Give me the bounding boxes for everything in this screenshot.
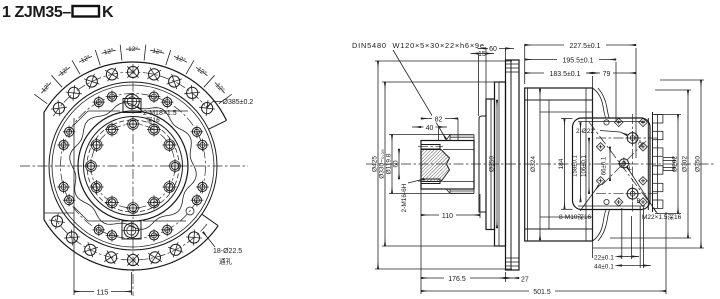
svg-text:12°: 12° [174, 53, 187, 64]
spigot circle D335 [49, 82, 217, 250]
seal carrier disc [479, 116, 486, 212]
dim 79 text [600, 69, 613, 79]
svg-text:2-Ø22: 2-Ø22 [576, 128, 594, 135]
svg-text:110: 110 [442, 213, 453, 220]
dim D202 ext [655, 115, 681, 214]
svg-text:195.5±0.1: 195.5±0.1 [562, 58, 593, 65]
dim 60 top ext [486, 48, 506, 99]
svg-text:12°: 12° [79, 53, 92, 64]
port B [626, 187, 641, 205]
M18 hole top [124, 93, 141, 110]
dim 195.5 line [525, 59, 616, 61]
dim 22 line [617, 256, 639, 258]
dim 110 line [421, 214, 480, 216]
svg-text:183.5±0.1: 183.5±0.1 [549, 71, 580, 78]
dim 176.5 line [421, 277, 506, 279]
thread dashed circle [87, 120, 179, 212]
dim 501.5 text [529, 287, 555, 297]
svg-text:40: 40 [426, 125, 434, 132]
dim 40 line [412, 126, 447, 128]
8x M10 holes diamonds [596, 118, 647, 206]
rear neck curves [593, 88, 611, 241]
dim 79 line [593, 72, 637, 74]
right view centerline [366, 163, 714, 165]
svg-text:12°: 12° [58, 65, 71, 77]
svg-text:Ø385±0.2: Ø385±0.2 [223, 99, 254, 106]
flange step line upper right [209, 120, 227, 129]
dim 176.5 text [444, 274, 470, 284]
dim 176.5 ext [421, 189, 506, 294]
label M22 leader [627, 167, 656, 212]
dim 227.5 line [525, 44, 636, 46]
label 2-M16 leader [408, 179, 424, 183]
dim 501.5 ext [665, 212, 667, 294]
svg-text:115: 115 [97, 288, 109, 297]
dim 27 line [506, 277, 520, 279]
label 18-D22.5 text [213, 248, 242, 266]
dim D324 line [539, 89, 541, 240]
dim 158 line [580, 122, 582, 202]
rear port face outline [573, 118, 651, 210]
hub disc D260 [486, 99, 495, 230]
svg-text:60: 60 [489, 46, 497, 53]
spigot circle D330 [52, 85, 214, 247]
svg-text:18-Ø22.5: 18-Ø22.5 [213, 248, 242, 255]
svg-text:深16: 深16 [146, 115, 160, 124]
svg-text:2-M16-6H: 2-M16-6H [401, 183, 408, 212]
label DIN5480 leader [393, 50, 446, 139]
dim D302 ext [610, 90, 691, 238]
dim 60 top text [488, 44, 499, 53]
label 2-M18 text [143, 110, 177, 124]
dim 40 text [424, 123, 436, 132]
M18 hole bottom [123, 222, 141, 240]
dim D350 line [700, 80, 702, 248]
inner housing chamfer bottom [74, 207, 88, 221]
port face vertical centerline [632, 114, 634, 213]
dim 66 line [609, 147, 611, 181]
dim D302 line [687, 90, 689, 238]
small hole top row [604, 120, 609, 205]
dim 22 ext [622, 206, 640, 268]
dim 110 ext [479, 194, 481, 218]
dim D119.8 line [391, 135, 393, 194]
dim 184 line [564, 119, 566, 210]
svg-text:44±0.1: 44±0.1 [594, 264, 614, 271]
port A [626, 131, 642, 147]
dim 82 ext [457, 119, 459, 141]
flat connector line [44, 212, 74, 214]
dim 15 ext [478, 54, 480, 116]
svg-text:79: 79 [603, 71, 611, 78]
inner housing left edge [73, 118, 75, 226]
svg-text:227.5±0.1: 227.5±0.1 [569, 43, 600, 50]
dim 115 extension lines [74, 226, 132, 295]
dim D119.8 ext lines [389, 135, 452, 194]
flange step line lower right [202, 214, 218, 226]
outer flange arc top D425 [44, 62, 227, 120]
dim 115 text [94, 287, 111, 297]
label 2-D22 leader [600, 131, 627, 136]
dim 15 line [471, 53, 495, 55]
label 18-D22.5 leader [203, 232, 215, 247]
svg-text:1 ZJM35–: 1 ZJM35– [2, 4, 71, 21]
dim 110 text [439, 211, 456, 221]
inner housing top edge [88, 110, 188, 112]
2-M16 tapped hole top [418, 145, 443, 150]
spigot D330 [495, 82, 506, 246]
dim 195.5 ext [615, 62, 617, 122]
cam ring lobed profile [70, 103, 196, 229]
left flat edge [43, 112, 45, 220]
svg-text:8-M10深16: 8-M10深16 [559, 212, 592, 221]
dim 60 spline line [398, 149, 400, 179]
svg-text:L: L [629, 166, 633, 172]
svg-text:27: 27 [521, 277, 529, 284]
svg-text:12°: 12° [128, 45, 138, 53]
svg-text:106±0.1: 106±0.1 [582, 155, 588, 177]
mid bolt circle centerline [61, 94, 206, 239]
dim 44 ext [642, 206, 644, 268]
dim 40 ext [438, 128, 440, 141]
dim 501.5 line [421, 290, 666, 292]
svg-text:15: 15 [478, 51, 486, 58]
bolt circle centerline top [53, 72, 205, 116]
valve teeth column [648, 112, 676, 212]
dim 183.5 line [525, 72, 593, 74]
M18 port pocket bottom [122, 221, 141, 239]
left view vertical centerline [132, 64, 134, 296]
label 2-M18 leader [137, 107, 143, 112]
output shaft spline block [421, 135, 474, 194]
dim 115 line [74, 291, 132, 293]
12deg labels [40, 45, 227, 94]
bore circle D98 [84, 117, 183, 216]
svg-text:K: K [102, 4, 114, 21]
dim 184 ext [561, 119, 573, 210]
svg-text:66±0.1: 66±0.1 [602, 156, 608, 175]
svg-text:12°: 12° [195, 65, 208, 77]
svg-text:12°: 12° [152, 47, 164, 57]
dim D425 line [377, 61, 379, 269]
dim 183.5 text [544, 69, 586, 79]
inner housing chamfer top [74, 111, 88, 125]
dim 82 text [432, 115, 445, 124]
18x D22.5 bolt holes [49, 66, 215, 265]
rear port face inner bottom line [578, 205, 645, 207]
svg-text:22±0.1: 22±0.1 [594, 255, 614, 262]
mid ring roller holes [57, 90, 208, 241]
dim 60 top line [478, 47, 515, 49]
dim 195.5 text [557, 55, 599, 65]
dim D425 ext lines [375, 61, 512, 269]
port A centerline [596, 137, 658, 139]
diagonal centerline 2 [602, 141, 646, 185]
M18 port pocket top [123, 99, 141, 113]
diagonal centerline 1 [589, 122, 658, 214]
dim D350 ext [593, 80, 705, 248]
title box [73, 6, 100, 17]
dim 106 line [588, 138, 590, 194]
dim 15 text [477, 49, 487, 58]
dim D330 ext lines [382, 82, 500, 246]
svg-text:通孔: 通孔 [219, 257, 233, 266]
dim 44 line [617, 265, 651, 267]
dim 82 line [421, 118, 458, 120]
dim 227.5 ext [525, 44, 636, 158]
port L center [618, 157, 633, 172]
svg-text:501.5: 501.5 [533, 289, 551, 296]
svg-text:82: 82 [435, 117, 443, 124]
dim 227.5 text [564, 41, 606, 51]
dim D250 line [496, 100, 498, 228]
svg-text:12°: 12° [103, 47, 115, 57]
main housing D324 [525, 88, 593, 241]
left view horizontal centerline [20, 165, 248, 167]
svg-text:176.5: 176.5 [448, 276, 466, 283]
inner bolt circle centerline [91, 124, 175, 208]
label 8-M10 leader [580, 185, 599, 211]
svg-text:158±0.1: 158±0.1 [573, 155, 579, 177]
bore circle D110 [78, 111, 188, 221]
label D385 leader [207, 102, 223, 108]
rear port face inner top line [578, 121, 645, 123]
pin hole [186, 207, 194, 215]
outer flange arc bottom D425 [44, 220, 218, 270]
dim D202 line [677, 115, 679, 214]
port B centerline [596, 193, 658, 195]
dim D330 line [384, 82, 386, 246]
inner housing bottom edge [88, 220, 186, 222]
svg-text:DIN5480 W120×5×30×22×h6×9e: DIN5480 W120×5×30×22×h6×9e [352, 41, 485, 50]
spigot inner line [498, 82, 500, 246]
2-M16 tapped hole bottom [418, 179, 443, 184]
bolt circle centerline bottom [55, 219, 207, 260]
long ext line 592 [592, 76, 594, 258]
12deg angular dimension ticks [34, 45, 231, 104]
main flange D425 [506, 60, 520, 270]
12 inner bolt holes [84, 117, 182, 215]
